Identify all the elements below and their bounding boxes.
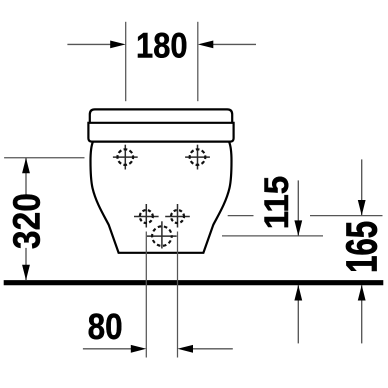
- svg-text:165: 165: [337, 221, 386, 273]
- lower right fixing hole dashed circle: [171, 210, 184, 223]
- waste outlet dashed circle: [152, 226, 172, 246]
- lower left fixing hole dashed circle: [140, 210, 153, 223]
- dim 180 right dimension line: [212, 43, 256, 45]
- dim 165 dimension line lower segment: [361, 285, 363, 343]
- dim 320 dimension line upper segment: [25, 158, 27, 196]
- dim 115 dimension line upper segment: [297, 180, 299, 236]
- waste outlet crosshair: [147, 221, 177, 248]
- upper left mounting hole dashed circle: [118, 149, 134, 165]
- dim 320 top arrowhead: [22, 158, 30, 174]
- dim 165 extension line left segment: [228, 215, 254, 217]
- dim 115 lower arrowhead: [294, 285, 302, 301]
- svg-text:320: 320: [7, 193, 49, 249]
- dim 165 upper arrowhead: [358, 200, 366, 216]
- dim 165 dimension line upper segment: [361, 159, 363, 215]
- dim 180 right arrowhead: [198, 41, 214, 49]
- dim 80 left dimension line: [83, 348, 132, 350]
- lower left fixing hole crosshair: [134, 204, 159, 228]
- dim 320 extension line: [4, 157, 84, 159]
- dim 180 left extension line: [125, 22, 127, 101]
- dim 80 right extension line: [177, 232, 179, 358]
- dim 320 dimension line lower segment: [25, 248, 27, 280]
- dim 180 right extension line: [197, 22, 199, 101]
- lower right fixing hole crosshair: [165, 204, 190, 228]
- toilet rim band: [88, 123, 233, 142]
- upper right mounting hole dashed circle: [190, 149, 206, 165]
- svg-text:115: 115: [258, 176, 296, 230]
- upper left mounting hole crosshair: [113, 145, 138, 170]
- dim 115 upper arrowhead: [294, 220, 302, 236]
- dim 115 extension line at outlet level: [222, 235, 323, 237]
- dim 80 right dimension line: [192, 348, 233, 350]
- dim 180 left dimension line: [67, 43, 112, 45]
- floor line: [4, 280, 384, 285]
- dim 80 left arrowhead: [131, 345, 147, 353]
- svg-text:80: 80: [88, 306, 123, 347]
- dim 80 left extension line: [145, 232, 147, 358]
- dim 115 dimension line lower segment: [297, 285, 299, 343]
- dim 180 left arrowhead: [110, 41, 126, 49]
- dim 165 extension line right segment: [310, 215, 383, 217]
- upper right mounting hole crosshair: [185, 145, 210, 170]
- toilet body outline: [91, 142, 232, 253]
- toilet top lid band: [90, 109, 232, 122]
- svg-text:180: 180: [136, 26, 188, 65]
- dim 165 lower arrowhead: [358, 285, 366, 301]
- dim 320 bottom arrowhead: [22, 265, 30, 281]
- dim 80 right arrowhead: [178, 345, 194, 353]
